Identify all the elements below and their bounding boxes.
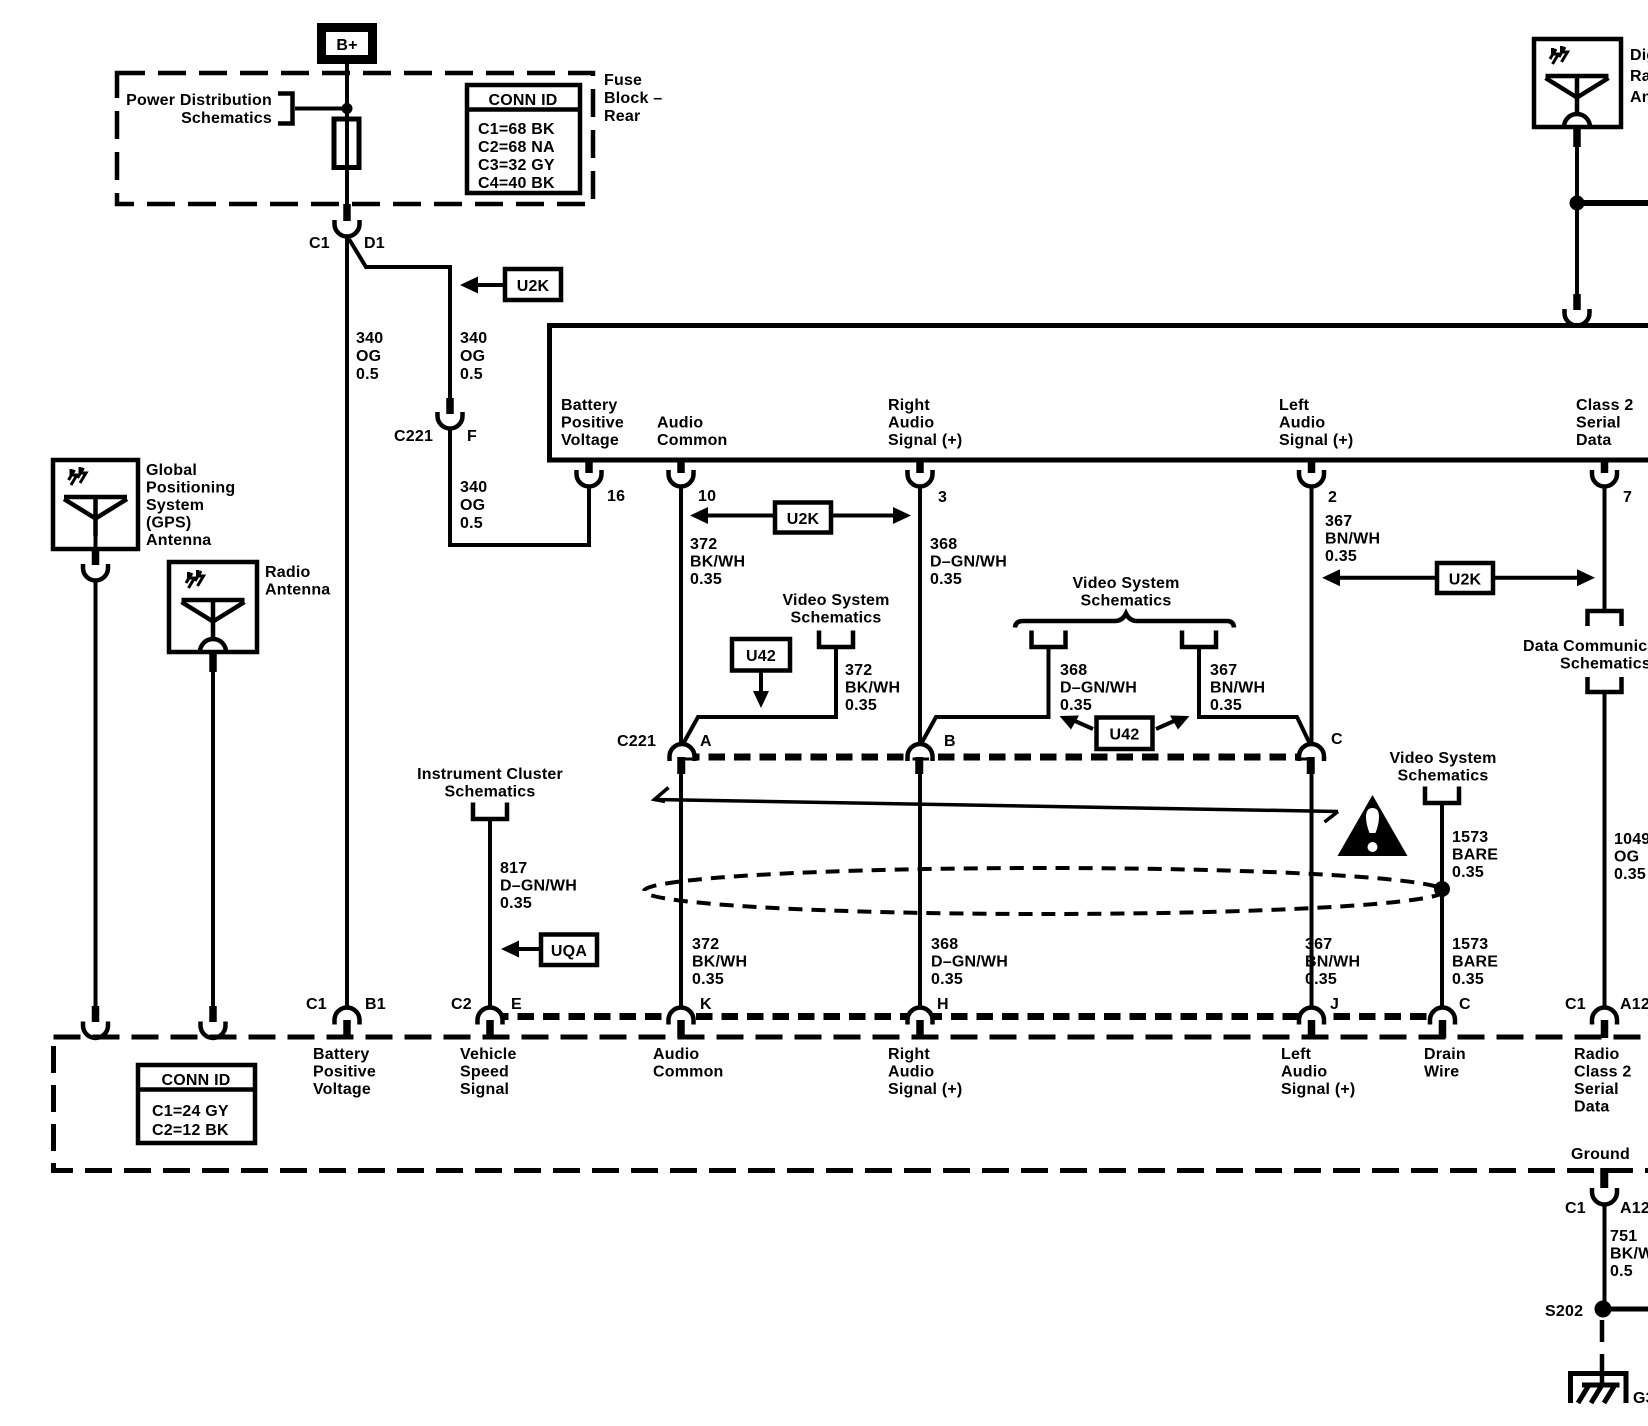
GPS bottom connector stub — [92, 1006, 100, 1022]
svg-text:0.5: 0.5 — [460, 515, 483, 532]
svg-text:D1: D1 — [364, 235, 385, 252]
svg-text:Video System: Video System — [1072, 575, 1179, 592]
svg-text:Antenna: Antenna — [265, 582, 330, 599]
label wire 367 BN/WH 0.35 mid — [1210, 662, 1265, 714]
connector pin K stub — [677, 1020, 685, 1038]
svg-text:340: 340 — [460, 479, 487, 496]
label Right Audio Signal bottom — [888, 1046, 962, 1098]
svg-text:Schematics: Schematics — [181, 110, 272, 127]
label wire 340 OG 0.5 lower — [460, 479, 487, 532]
svg-text:Speed: Speed — [460, 1064, 509, 1081]
label wire 372 BK/WH 0.35 mid — [845, 662, 900, 714]
label wire 372 BK/WH 0.35 lower — [692, 936, 747, 988]
svg-text:10: 10 — [698, 488, 716, 505]
svg-text:C2: C2 — [451, 996, 472, 1013]
radio pin 16 cup — [577, 470, 602, 487]
svg-text:Audio: Audio — [888, 415, 934, 432]
GPS bottom connector cup — [83, 1022, 108, 1039]
svg-text:A12: A12 — [1620, 1200, 1648, 1217]
svg-text:368: 368 — [930, 536, 957, 553]
svg-text:BK/WH: BK/WH — [692, 954, 747, 971]
label radio Right Audio Signal — [888, 397, 962, 449]
label Data Communication Schematics — [1523, 638, 1648, 673]
connector drain pin C stub — [1439, 1020, 1447, 1038]
svg-text:Positive: Positive — [561, 415, 624, 432]
svg-text:Schematics: Schematics — [791, 610, 882, 627]
radio pin 7 cup — [1592, 470, 1617, 487]
svg-text:BARE: BARE — [1452, 954, 1498, 971]
svg-text:BN/WH: BN/WH — [1325, 531, 1380, 548]
label Audio Common bottom — [653, 1046, 724, 1081]
wire 368 D-GN/WH pin 3 to C221 B — [918, 487, 922, 747]
GPS antenna connector cup — [83, 564, 108, 581]
svg-text:A12: A12 — [1620, 996, 1648, 1013]
svg-text:Audio: Audio — [653, 1046, 699, 1063]
svg-text:Radio: Radio — [1574, 1046, 1619, 1063]
instrument cluster bracket — [473, 803, 507, 820]
junction drain ellipse — [1434, 881, 1450, 897]
svg-text:Signal (+): Signal (+) — [888, 432, 962, 449]
CONN ID table bottom — [138, 1065, 255, 1143]
svg-text:Wire: Wire — [1424, 1064, 1459, 1081]
svg-text:C4=40 BK: C4=40 BK — [478, 175, 555, 192]
svg-text:B+: B+ — [336, 37, 357, 54]
svg-text:Voltage: Voltage — [313, 1081, 371, 1098]
svg-text:BN/WH: BN/WH — [1210, 680, 1265, 697]
svg-text:Data: Data — [1576, 432, 1611, 449]
junction digital antenna — [1570, 196, 1585, 211]
svg-text:G303: G303 — [1633, 1390, 1648, 1407]
svg-text:Data: Data — [1574, 1099, 1609, 1116]
svg-text:C1=24 GY: C1=24 GY — [152, 1103, 229, 1120]
svg-text:C3=32 GY: C3=32 GY — [478, 157, 555, 174]
svg-text:Schematics: Schematics — [445, 784, 536, 801]
svg-text:0.35: 0.35 — [931, 971, 963, 988]
svg-text:BN/WH: BN/WH — [1305, 954, 1360, 971]
svg-text:S202: S202 — [1545, 1303, 1583, 1320]
wire 340 OG main down from C1 — [345, 237, 349, 1010]
svg-text:Class 2: Class 2 — [1574, 1064, 1631, 1081]
wire fuse to connector C1 D1 — [345, 167, 349, 208]
svg-text:0.35: 0.35 — [500, 895, 532, 912]
svg-text:C: C — [1331, 731, 1343, 748]
svg-text:OG: OG — [1614, 849, 1639, 866]
wire GPS antenna to radio — [94, 581, 98, 1009]
svg-text:Vehicle: Vehicle — [460, 1046, 517, 1063]
svg-text:C1: C1 — [1565, 1200, 1586, 1217]
svg-text:BK/WH: BK/WH — [690, 554, 745, 571]
svg-text:367: 367 — [1305, 936, 1332, 953]
label Vehicle Speed Signal — [460, 1046, 517, 1098]
warning triangle — [1338, 795, 1408, 856]
svg-text:K: K — [700, 996, 712, 1013]
radio antenna bottom connector stub — [209, 1006, 217, 1022]
svg-text:Audio: Audio — [888, 1064, 934, 1081]
data communication bracket upper — [1588, 611, 1622, 626]
svg-text:B1: B1 — [365, 996, 386, 1013]
label radio Class 2 Serial Data — [1576, 397, 1633, 449]
label Video System Schematics center — [1072, 575, 1179, 610]
label wire 751 BK/WH 0.5 — [1610, 1228, 1648, 1280]
label wire 1573 BARE 0.35 lower — [1452, 936, 1498, 988]
label wire 1573 BARE 0.35 upper — [1452, 829, 1498, 881]
connector C221 A arch — [672, 748, 693, 758]
svg-text:Class 2: Class 2 — [1576, 397, 1633, 414]
svg-text:U2K: U2K — [517, 278, 550, 295]
svg-text:Signal (+): Signal (+) — [1281, 1081, 1355, 1098]
label wire 367 BN/WH 0.35 lower — [1305, 936, 1360, 988]
digital antenna connector stub at radio — [1573, 294, 1581, 310]
svg-text:16: 16 — [607, 488, 625, 505]
label Power Distribution Schematics — [126, 92, 272, 127]
label radio Left Audio Signal — [1279, 397, 1353, 449]
svg-text:Signal: Signal — [460, 1081, 509, 1098]
svg-text:0.35: 0.35 — [1060, 697, 1092, 714]
svg-text:Left: Left — [1281, 1046, 1312, 1063]
U2K arrow right between pin 2 and pin 7 — [1322, 563, 1595, 593]
svg-text:CONN ID: CONN ID — [489, 92, 558, 109]
digital radio antenna — [1534, 39, 1621, 127]
video system schematics bracket drain — [1425, 787, 1459, 804]
radio component box — [550, 326, 1648, 461]
wire 567 YE pin 7 down — [1603, 487, 1607, 614]
svg-text:751: 751 — [1610, 1228, 1637, 1245]
connector C221 A stub — [677, 757, 685, 774]
svg-text:C2=12 BK: C2=12 BK — [152, 1122, 229, 1139]
svg-text:H: H — [937, 996, 949, 1013]
connector C2 E stub — [486, 1020, 494, 1038]
svg-text:0.35: 0.35 — [1210, 697, 1242, 714]
svg-text:0.5: 0.5 — [1610, 1263, 1633, 1280]
wire 372 BK/WH from bracket to C221 A — [683, 647, 836, 744]
wire radio antenna to radio — [211, 670, 215, 1008]
svg-text:Signal (+): Signal (+) — [888, 1081, 962, 1098]
wire 372 BK/WH C221 A to pin K — [679, 772, 683, 1009]
svg-text:Right: Right — [888, 1046, 930, 1063]
svg-text:Common: Common — [653, 1064, 724, 1081]
svg-text:BARE: BARE — [1452, 847, 1498, 864]
connector C221 F cup — [438, 412, 463, 429]
label Digital Radio Antenna clipped — [1630, 47, 1648, 106]
svg-text:367: 367 — [1325, 513, 1352, 530]
svg-text:E: E — [511, 996, 522, 1013]
U2K double arrow between pin 10 and pin 3 — [690, 503, 911, 533]
wire 340 OG branch diagonal to C221 F — [349, 239, 450, 398]
C221 inline connector dashed line (A-B-C row) — [683, 754, 1311, 761]
svg-text:D–GN/WH: D–GN/WH — [931, 954, 1008, 971]
connector pin H stub — [916, 1020, 924, 1038]
svg-text:UQA: UQA — [551, 943, 587, 960]
junction at fuse top — [342, 103, 353, 114]
svg-text:Global: Global — [146, 462, 197, 479]
svg-text:0.35: 0.35 — [1452, 864, 1484, 881]
connector C1 D1 stub — [343, 204, 351, 221]
connector C1 B1 arch — [337, 1011, 358, 1021]
bottom inline connector dashed line (E-K-H-J-C row) — [492, 1013, 1443, 1020]
wire S202 branch right — [1608, 1307, 1648, 1312]
label wire 368 D-GN/WH 0.35 lower — [931, 936, 1008, 988]
svg-text:BK/WH: BK/WH — [845, 680, 900, 697]
svg-text:Voltage: Voltage — [561, 432, 619, 449]
video system schematics bracket left — [819, 631, 853, 648]
wire digital antenna branch right — [1577, 200, 1648, 206]
svg-text:Positioning: Positioning — [146, 480, 235, 497]
svg-text:3: 3 — [938, 489, 947, 506]
svg-text:368: 368 — [1060, 662, 1087, 679]
svg-text:0.35: 0.35 — [845, 697, 877, 714]
svg-text:F: F — [467, 428, 477, 445]
svg-text:U42: U42 — [746, 648, 776, 665]
svg-text:2: 2 — [1328, 489, 1337, 506]
label wire 368 D-GN/WH 0.35 mid — [1060, 662, 1137, 714]
svg-text:0.35: 0.35 — [690, 571, 722, 588]
svg-text:0.35: 0.35 — [1325, 548, 1357, 565]
digital antenna connector cup at radio — [1565, 309, 1590, 326]
svg-text:Video System: Video System — [782, 592, 889, 609]
svg-text:340: 340 — [460, 330, 487, 347]
label Left Audio Signal bottom — [1281, 1046, 1355, 1098]
svg-text:367: 367 — [1210, 662, 1237, 679]
svg-text:B: B — [944, 733, 956, 750]
svg-text:Video System: Video System — [1389, 750, 1496, 767]
svg-text:U42: U42 — [1110, 727, 1140, 744]
label Instrument Cluster Schematics — [417, 766, 563, 801]
svg-text:J: J — [1330, 996, 1339, 1013]
svg-text:A: A — [700, 733, 712, 750]
ground symbol G303 — [1571, 1373, 1627, 1403]
svg-text:C1: C1 — [309, 235, 330, 252]
label wire 367 BN/WH 0.35 at pin 2 — [1325, 513, 1380, 565]
label Video System Schematics left — [782, 592, 889, 627]
label wire 340 OG 0.5 left — [356, 330, 383, 383]
svg-text:Rear: Rear — [604, 108, 640, 125]
connector C1 D1 cup — [335, 220, 360, 237]
svg-text:7: 7 — [1623, 489, 1632, 506]
svg-text:Positive: Positive — [313, 1064, 376, 1081]
connector pin J stub — [1308, 1020, 1316, 1038]
wire 367 BN/WH pin 2 to C221 C — [1310, 487, 1314, 747]
svg-text:Common: Common — [657, 432, 728, 449]
connector pin J arch — [1301, 1011, 1322, 1021]
svg-text:Signal (+): Signal (+) — [1279, 432, 1353, 449]
svg-text:Drain: Drain — [1424, 1046, 1466, 1063]
svg-text:Serial: Serial — [1574, 1081, 1619, 1098]
label wire 372 BK/WH 0.35 at pin 10 — [690, 536, 745, 588]
radio pin 3 stub — [916, 460, 924, 473]
svg-text:Right: Right — [888, 397, 930, 414]
svg-text:Digital: Digital — [1630, 47, 1648, 64]
svg-text:System: System — [146, 497, 204, 514]
svg-text:C: C — [1459, 996, 1471, 1013]
UQA arrow — [501, 935, 597, 966]
radio pin 10 stub — [677, 460, 685, 473]
svg-text:1573: 1573 — [1452, 936, 1488, 953]
svg-text:Power Distribution: Power Distribution — [126, 92, 272, 109]
svg-text:Radio: Radio — [265, 564, 310, 581]
svg-text:0.35: 0.35 — [1614, 866, 1646, 883]
wire digital antenna down — [1575, 145, 1579, 296]
GPS antenna connector stub — [92, 549, 100, 565]
svg-text:Ground: Ground — [1571, 1146, 1630, 1163]
ground pin stub — [1600, 1168, 1608, 1188]
svg-text:Battery: Battery — [561, 397, 618, 414]
svg-text:368: 368 — [931, 936, 958, 953]
svg-text:OG: OG — [460, 348, 485, 365]
svg-text:Antenna: Antenna — [1630, 89, 1648, 106]
wire 817 D-GN/WH vehicle speed — [488, 819, 492, 1009]
svg-text:BK/WH: BK/WH — [1610, 1246, 1648, 1263]
connector C1 A12 stub — [1601, 1020, 1609, 1038]
svg-text:U2K: U2K — [787, 511, 820, 528]
svg-text:Schematics: Schematics — [1398, 768, 1489, 785]
wire S202 to ground dashed — [1600, 1320, 1605, 1385]
wire 368 D-GN/WH from bracket to C221 B — [921, 647, 1049, 744]
wire 1573 BARE drain upper — [1440, 803, 1444, 1009]
svg-text:C221: C221 — [394, 428, 433, 445]
svg-text:Fuse: Fuse — [604, 72, 642, 89]
long reference arrow across audio wires — [655, 788, 1339, 823]
svg-text:372: 372 — [845, 662, 872, 679]
svg-text:Schematics: Schematics — [1081, 593, 1172, 610]
wire power distribution branch — [295, 107, 347, 111]
connector C2 E arch — [480, 1011, 501, 1021]
fuse block rear dashed box — [117, 73, 593, 204]
label radio Audio Common — [657, 415, 728, 450]
label Radio Class 2 Serial Data — [1574, 1046, 1631, 1116]
radio pin 7 stub — [1601, 460, 1609, 473]
curly brace — [1015, 614, 1234, 628]
svg-text:C1=68 BK: C1=68 BK — [478, 121, 555, 138]
bracket 367 branch — [1182, 631, 1216, 648]
connector C1 A12 arch — [1594, 1011, 1615, 1021]
digital antenna stub — [1573, 127, 1581, 147]
wire 751 BK/WH ground — [1603, 1205, 1607, 1310]
connector C221 B arch — [910, 748, 931, 758]
twisted-pair dashed ellipse — [644, 868, 1444, 914]
label Drain Wire — [1424, 1046, 1466, 1081]
radio pin 10 cup — [669, 470, 694, 487]
connector drain pin C arch — [1432, 1011, 1453, 1021]
CONN ID table fuse block — [467, 85, 580, 193]
wire B+ to fuse — [345, 64, 349, 120]
svg-text:D–GN/WH: D–GN/WH — [1060, 680, 1137, 697]
connector C221 C arch — [1301, 748, 1322, 758]
B+ power node box — [322, 28, 373, 60]
svg-text:Serial: Serial — [1576, 415, 1621, 432]
svg-text:Instrument Cluster: Instrument Cluster — [417, 766, 563, 783]
svg-text:1573: 1573 — [1452, 829, 1488, 846]
svg-text:817: 817 — [500, 860, 527, 877]
svg-text:372: 372 — [692, 936, 719, 953]
radio antenna bottom connector cup — [201, 1022, 226, 1039]
radio pin 16 stub — [585, 460, 593, 473]
svg-text:Audio: Audio — [657, 415, 703, 432]
radio antenna stub — [209, 652, 217, 672]
connector C221 C stub — [1307, 757, 1315, 774]
svg-text:Battery: Battery — [313, 1046, 370, 1063]
label wire 817 D-GN/WH 0.35 — [500, 860, 577, 912]
svg-text:C1: C1 — [306, 996, 327, 1013]
wire 367 BN/WH from bracket to C221 C — [1199, 647, 1310, 744]
connector pin K arch — [671, 1011, 692, 1021]
ground pin cup C1 A12 — [1592, 1188, 1617, 1205]
label Fuse Block Rear — [604, 72, 662, 125]
svg-text:Data Communication: Data Communication — [1523, 638, 1648, 655]
svg-text:Block –: Block – — [604, 90, 662, 107]
svg-text:Antenna: Antenna — [146, 532, 211, 549]
radio antenna — [169, 562, 257, 652]
svg-text:U2K: U2K — [1449, 572, 1482, 589]
wire 372 BK/WH pin 10 to C221 A — [679, 487, 683, 747]
svg-text:OG: OG — [356, 348, 381, 365]
svg-text:340: 340 — [356, 330, 383, 347]
svg-text:C1: C1 — [1565, 996, 1586, 1013]
svg-text:C2=68 NA: C2=68 NA — [478, 139, 555, 156]
svg-text:Radio: Radio — [1630, 68, 1648, 85]
svg-text:372: 372 — [690, 536, 717, 553]
svg-text:Left: Left — [1279, 397, 1310, 414]
label Battery Positive Voltage bottom — [313, 1046, 376, 1098]
svg-text:0.35: 0.35 — [1305, 971, 1337, 988]
radio pin 3 cup — [908, 470, 933, 487]
svg-text:Schematics: Schematics — [1560, 656, 1648, 673]
svg-text:1049: 1049 — [1614, 831, 1648, 848]
svg-text:CONN ID: CONN ID — [162, 1072, 231, 1089]
connector C221 B stub — [915, 757, 923, 774]
U2K arrow top — [460, 269, 561, 300]
svg-text:0.5: 0.5 — [460, 366, 483, 383]
label Radio Antenna — [265, 564, 330, 599]
connector pin H arch — [910, 1011, 931, 1021]
GPS antenna U77 — [53, 460, 138, 549]
connector C1 B1 stub — [343, 1020, 351, 1038]
radio pin 2 cup — [1299, 470, 1324, 487]
wire 340 OG from C221 F to radio pin 16 — [450, 429, 589, 546]
label Video System Schematics right — [1389, 750, 1496, 785]
radio bottom dashed connector box — [54, 1037, 1648, 1171]
svg-text:C221: C221 — [617, 733, 656, 750]
svg-text:Audio: Audio — [1279, 415, 1325, 432]
svg-text:0.35: 0.35 — [930, 571, 962, 588]
label radio Battery Positive Voltage — [561, 397, 624, 449]
data communication bracket lower — [1588, 677, 1622, 692]
label wire 368 D-GN/WH 0.35 at pin 3 — [930, 536, 1007, 588]
resistor RADIO Fuse 42 15 A — [334, 119, 359, 168]
svg-text:0.35: 0.35 — [1452, 971, 1484, 988]
svg-text:D–GN/WH: D–GN/WH — [500, 878, 577, 895]
label Global Positioning System GPS Antenna — [146, 462, 235, 549]
wire 367 BN/WH C221 C to pin J — [1310, 772, 1314, 1009]
U42 box with down arrow — [732, 639, 790, 708]
svg-text:Audio: Audio — [1281, 1064, 1327, 1081]
wire 368 D-GN/WH C221 B to pin H — [918, 772, 922, 1009]
U42 box with two diagonal arrows — [1060, 716, 1190, 750]
label wire 340 OG 0.5 right — [460, 330, 487, 383]
power distribution schematics bracket — [278, 94, 293, 124]
connector C221 F stub — [446, 398, 454, 414]
bracket 368 branch — [1032, 631, 1066, 648]
splice S202 — [1595, 1301, 1612, 1318]
radio pin 2 stub — [1308, 460, 1316, 473]
label wire 1049 OG 0.35 — [1614, 831, 1648, 883]
wire 1049 OG pin 7 lower — [1603, 692, 1607, 1009]
svg-text:0.5: 0.5 — [356, 366, 379, 383]
svg-text:OG: OG — [460, 497, 485, 514]
svg-text:(GPS): (GPS) — [146, 515, 191, 532]
svg-text:0.35: 0.35 — [692, 971, 724, 988]
svg-text:D–GN/WH: D–GN/WH — [930, 554, 1007, 571]
